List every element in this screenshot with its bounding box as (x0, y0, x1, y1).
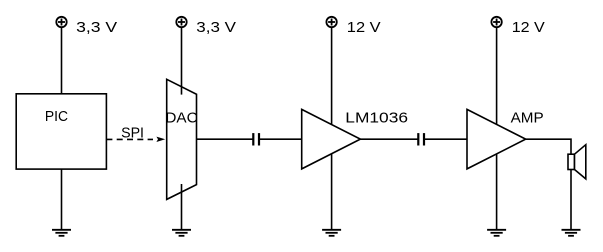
svg-text:3,3 V: 3,3 V (196, 20, 236, 36)
wire: DAC bottom to ground (181, 184, 183, 230)
ground (LM1036) (322, 230, 341, 236)
svg-text:LM1036: LM1036 (345, 111, 408, 126)
power symbol +12V (AMP) (491, 17, 501, 27)
wire: 12V to AMP top edge (496, 27, 498, 124)
svg-text:12 V: 12 V (347, 20, 382, 36)
wire: AMP out to speaker node (526, 139, 571, 230)
wire: LM1036 out to C2 (360, 138, 418, 140)
svg-text:PIC: PIC (45, 109, 68, 125)
wire: 3.3V to PIC top (61, 27, 63, 94)
wire: 12V to LM1036 top edge (331, 27, 333, 125)
power symbol +12V (LM1036) (326, 17, 336, 27)
svg-text:3,3 V: 3,3 V (76, 19, 117, 35)
ground (PIC) (52, 230, 71, 236)
svg-text:DAC: DAC (165, 111, 197, 127)
wire: C1 to LM1036 (259, 138, 302, 140)
op-amp LM1036 U3 (302, 109, 361, 168)
svg-text:AMP: AMP (511, 111, 544, 127)
svg-text:SPI: SPI (121, 125, 144, 141)
ground (speaker) (562, 230, 581, 236)
wire: DAC out to C1 (197, 138, 254, 140)
power symbol +3.3V (PIC) (56, 17, 66, 27)
wire: SPI dashed PIC to DAC (106, 138, 153, 140)
wire: AMP bottom edge to ground (496, 154, 498, 230)
wire: LM1036 bottom edge to ground (331, 154, 333, 230)
ground (AMP) (487, 230, 506, 236)
PIC block U1 (16, 94, 106, 169)
capacitor C1 (253, 133, 259, 145)
SPI arrowhead (156, 137, 165, 142)
capacitor C2 (418, 133, 424, 145)
wire: C2 to AMP (424, 138, 467, 140)
op-amp AMP U4 (467, 109, 526, 168)
wire: 3.3V to DAC top (181, 27, 183, 95)
svg-text:12 V: 12 V (512, 20, 546, 36)
power symbol +3.3V (DAC) (176, 17, 186, 27)
wire: PIC bottom to ground (61, 169, 63, 230)
speaker LS1 (568, 145, 586, 179)
ground (DAC) (172, 230, 191, 236)
DAC body U2 (167, 79, 197, 199)
